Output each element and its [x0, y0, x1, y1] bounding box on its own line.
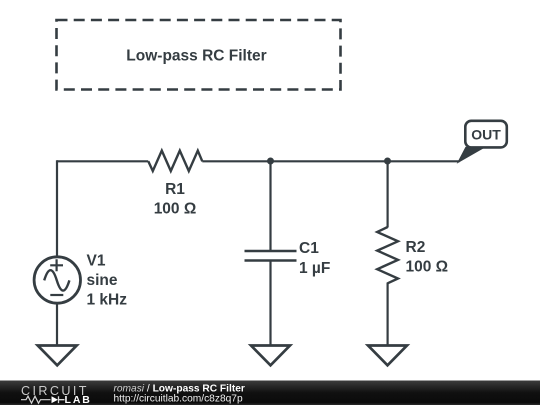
svg-text:LAB: LAB	[65, 394, 92, 405]
resistor R1	[148, 151, 202, 218]
wire: R2 bottom lead	[387, 283, 389, 346]
svg-text:OUT: OUT	[471, 127, 501, 143]
svg-text:1 µF: 1 µF	[299, 260, 330, 277]
wire: top horizontal right segment (R1 to OUT)	[202, 160, 459, 162]
footer bar	[0, 381, 540, 405]
svg-text:R2: R2	[406, 239, 426, 256]
voltage source V1	[34, 253, 127, 309]
svg-text:sine: sine	[87, 272, 118, 289]
svg-text:1 kHz: 1 kHz	[87, 292, 128, 309]
wire: C1 bottom lead	[269, 261, 271, 346]
capacitor C1	[245, 240, 331, 277]
svg-text:http://circuitlab.com/c8z8q7p: http://circuitlab.com/c8z8q7p	[114, 394, 243, 405]
wire: C1 top lead	[269, 161, 271, 251]
wire: V1 bottom lead	[56, 302, 58, 346]
footer logo glyph (resistor + diode)	[21, 396, 65, 403]
ground (C1)	[251, 346, 290, 366]
svg-text:V1: V1	[87, 253, 106, 270]
svg-text:C1: C1	[299, 240, 319, 257]
node flag OUT	[459, 121, 507, 162]
wire: V1 top lead	[56, 160, 58, 257]
svg-text:100 Ω: 100 Ω	[406, 259, 449, 276]
ground (V1)	[38, 346, 77, 366]
svg-text:Low-pass RC Filter: Low-pass RC Filter	[126, 48, 266, 65]
wire: top horizontal left segment (V1 to R1)	[57, 160, 148, 162]
svg-text:100 Ω: 100 Ω	[154, 201, 197, 218]
ground (R2)	[368, 346, 407, 366]
annotation dashed box	[57, 20, 341, 90]
svg-text:R1: R1	[165, 181, 185, 198]
junction dot (R2 node)	[384, 158, 391, 165]
resistor R2	[377, 227, 448, 283]
wire: R2 top lead	[387, 161, 389, 227]
junction dot (C1 node)	[267, 158, 274, 165]
